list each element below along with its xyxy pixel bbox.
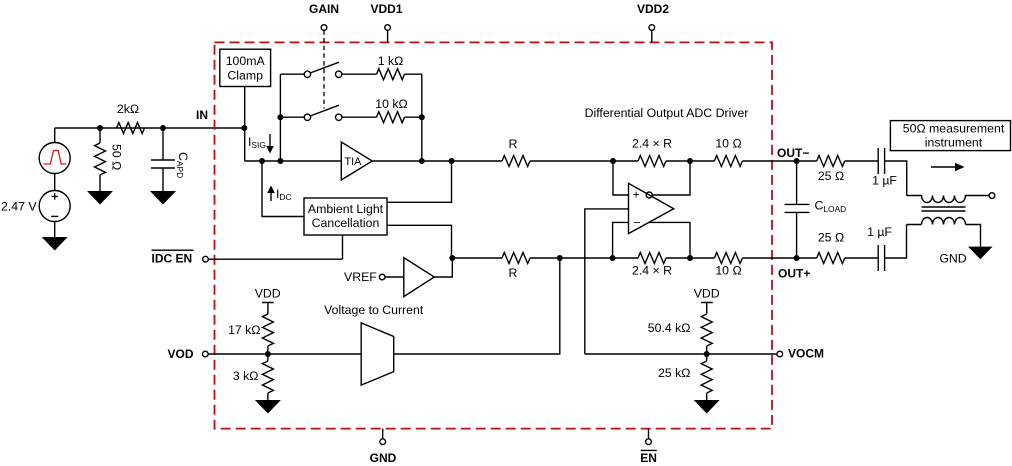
resistor 2k ohm <box>117 102 145 134</box>
node: junction feedback bottom <box>610 255 616 261</box>
capacitor 1 uF (top) <box>872 148 907 196</box>
resistor 25 ohm (bottom) <box>797 231 879 264</box>
svg-text:50 Ω: 50 Ω <box>110 144 124 170</box>
node: junction bottom out <box>687 255 693 261</box>
ground (50 ohm) <box>87 191 113 205</box>
svg-text:1 kΩ: 1 kΩ <box>378 54 404 68</box>
pin GND <box>370 429 397 465</box>
svg-text:25 Ω: 25 Ω <box>818 231 844 245</box>
svg-text:2kΩ: 2kΩ <box>117 102 139 116</box>
resistor 50.4 kohm <box>648 314 712 354</box>
svg-text:2.4 × R: 2.4 × R <box>632 137 672 151</box>
svg-text:100mA: 100mA <box>226 54 266 68</box>
resistor 1 kohm <box>377 54 422 80</box>
resistor 2.4xR (bottom) <box>632 253 714 278</box>
svg-text:GAIN: GAIN <box>309 2 339 16</box>
block V2C trapezoid <box>361 323 394 385</box>
pin EN <box>640 429 657 465</box>
node: junction OUT- / C_LOAD <box>794 158 800 164</box>
svg-text:1 µF: 1 µF <box>867 225 892 239</box>
resistor 10 ohm (bottom) <box>714 253 796 278</box>
pin VDD1 <box>370 2 402 42</box>
resistor 10 ohm (top) <box>714 137 796 167</box>
resistor 2.4xR (top) <box>632 137 714 167</box>
switch S2 (gain) <box>280 105 376 120</box>
svg-text:instrument: instrument <box>925 136 983 150</box>
node: junction OUT+ / C_LOAD <box>794 255 800 261</box>
wire: bottom R path <box>452 257 502 259</box>
wire: feedback to + input <box>613 161 629 195</box>
node: junction at 50 ohm <box>97 125 103 131</box>
resistor 50 ohm <box>95 128 124 191</box>
arrow to instrument <box>931 163 965 172</box>
pin GAIN <box>309 2 339 109</box>
wire: I_DC branch to Ambient Light Cancellation <box>262 161 304 217</box>
label I_SIG with down arrow <box>248 134 274 154</box>
node: junction rail at switch 2 <box>277 114 283 120</box>
resistor R (top) <box>502 137 638 167</box>
op-amp fully differential U1 <box>629 183 674 233</box>
resistor 25 ohm (top) <box>797 156 879 184</box>
svg-text:IDC EN: IDC EN <box>152 252 193 266</box>
ground (3 kohm) <box>255 400 281 414</box>
svg-text:−: − <box>634 216 641 230</box>
svg-text:3 kΩ: 3 kΩ <box>233 369 259 383</box>
svg-text:VDD: VDD <box>255 287 281 301</box>
svg-text:GND: GND <box>939 252 966 266</box>
svg-text:OUT−: OUT− <box>777 146 809 160</box>
svg-text:17 kΩ: 17 kΩ <box>228 323 260 337</box>
svg-text:Cancellation: Cancellation <box>312 216 380 230</box>
node: junction V2C to bottom path <box>557 255 563 261</box>
svg-text:EN: EN <box>640 451 657 465</box>
pin transformer secondary <box>989 193 995 199</box>
resistor 25 kohm <box>658 354 712 400</box>
svg-text:10 Ω: 10 Ω <box>715 264 741 278</box>
wire: ALC to TIA output <box>387 161 452 202</box>
node: junction I_DC branch <box>259 158 265 164</box>
pin VOCM <box>585 347 824 361</box>
svg-text:10 kΩ: 10 kΩ <box>375 97 407 111</box>
op-amp buffer U2 <box>404 258 435 297</box>
svg-text:OUT+: OUT+ <box>778 267 810 281</box>
dashed device boundary box <box>215 42 773 428</box>
node: junction top out <box>687 158 693 164</box>
power VDD (right divider) <box>694 287 720 315</box>
node: junction switch rail <box>277 158 283 164</box>
voltage source 2.47 V <box>1 191 70 238</box>
svg-text:+: + <box>633 188 640 202</box>
svg-text:Ambient Light: Ambient Light <box>308 202 384 216</box>
ground (source) <box>42 237 68 251</box>
svg-text:Differential Output ADC Driver: Differential Output ADC Driver <box>585 106 749 120</box>
pin VOD <box>167 347 361 361</box>
capacitor C_APD <box>151 128 190 191</box>
power VDD (left divider) <box>255 287 281 315</box>
svg-text:Clamp: Clamp <box>227 69 263 83</box>
wire: feedback to - input <box>613 222 629 258</box>
svg-text:VDD: VDD <box>694 287 720 301</box>
switch S1 (gain) <box>280 62 376 77</box>
wire: non-inverted output <box>649 222 690 258</box>
resistor 10 kohm <box>375 97 422 123</box>
wire: inverted output <box>652 161 690 195</box>
node: junction at C_APD <box>160 125 166 131</box>
wire: main input line <box>55 127 245 129</box>
transformer T1 <box>907 196 990 247</box>
wire: switch rail vertical <box>279 74 281 161</box>
svg-text:R: R <box>509 137 518 151</box>
svg-text:2.47 V: 2.47 V <box>1 200 37 214</box>
ground (25 kohm) <box>694 400 720 414</box>
resistor 3 kohm <box>233 354 274 400</box>
svg-text:50Ω measurement: 50Ω measurement <box>903 122 1005 136</box>
resistor R (bottom) <box>502 253 638 281</box>
wire: VREF to buffer <box>385 276 404 278</box>
wire: V2C output to bottom path <box>394 258 560 354</box>
node: junction rail 10k <box>419 114 425 120</box>
op-amp TIA <box>341 142 372 180</box>
svg-text:VREF: VREF <box>344 270 377 284</box>
node: junction at ALC feed <box>449 158 455 164</box>
node: IN junction <box>241 125 247 131</box>
wire: ALC to bottom path <box>387 225 452 258</box>
svg-text:R: R <box>509 266 518 280</box>
ground (C_APD) <box>150 191 176 205</box>
Ambient Light Cancellation block <box>304 198 387 235</box>
capacitor C_LOAD <box>785 161 847 258</box>
pulse source V1 <box>39 128 70 191</box>
resistor 17 kohm <box>228 314 273 354</box>
wire: clamp to input node down to TIA line <box>244 87 246 162</box>
capacitor 1 uF (bottom) <box>867 225 906 272</box>
svg-text:VDD1: VDD1 <box>370 2 402 16</box>
wire: ALC bottom to IDC EN line <box>342 235 344 259</box>
svg-text:50.4 kΩ: 50.4 kΩ <box>648 321 691 335</box>
node: junction bottom path start <box>449 255 455 261</box>
pin VREF <box>379 274 385 280</box>
svg-text:TIA: TIA <box>345 156 363 168</box>
node: junction VOCM divider <box>704 351 710 357</box>
wire: TIA input line <box>245 160 342 162</box>
label I_DC with up arrow <box>267 186 291 203</box>
node: junction feedback top <box>610 158 616 164</box>
svg-text:IN: IN <box>196 108 208 122</box>
svg-text:GND: GND <box>370 451 397 465</box>
wire: buffer output up <box>434 258 452 277</box>
svg-text:1 µF: 1 µF <box>872 174 897 188</box>
svg-text:Voltage to Current: Voltage to Current <box>324 303 424 317</box>
svg-text:10 Ω: 10 Ω <box>715 137 741 151</box>
svg-text:VOD: VOD <box>167 347 193 361</box>
svg-text:2.4 × R: 2.4 × R <box>632 264 672 278</box>
node: junction VOD divider <box>265 351 271 357</box>
wire: VOCM to op-amp mid input <box>585 209 629 354</box>
svg-text:25 Ω: 25 Ω <box>818 169 844 183</box>
100mA Clamp block <box>220 49 271 86</box>
svg-text:VDD2: VDD2 <box>637 2 669 16</box>
svg-text:25 kΩ: 25 kΩ <box>658 366 690 380</box>
svg-text:VOCM: VOCM <box>788 347 824 361</box>
block 50 ohm measurement instrument <box>890 121 1010 151</box>
node: junction at rail <box>419 158 425 164</box>
pin IDC_EN <box>152 250 343 265</box>
ground (transformer) <box>939 247 992 266</box>
wire: TIA output line <box>372 160 502 162</box>
op-amp output bubble <box>646 192 652 198</box>
pin VDD2 <box>637 2 669 42</box>
wire: resistor rail vertical <box>421 74 423 161</box>
